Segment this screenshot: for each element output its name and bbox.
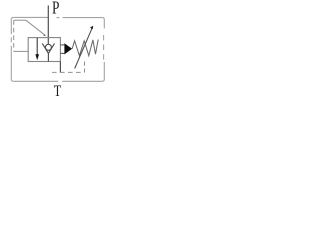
piston link lower [60,52,64,54]
piston link upper [60,44,64,46]
pilot line top horizontal [14,19,26,21]
port P line [47,6,49,45]
svg-text:P: P [52,0,60,18]
spring [72,40,98,56]
check valve ball [45,44,51,50]
pilot piston triangle [64,43,72,54]
drain dashed horizontal [52,71,85,73]
boundary box top edge [11,17,104,19]
tank line from valve box [59,62,61,73]
boundary box left edge [11,19,13,81]
check valve seat V [42,43,54,53]
main valve box [28,38,60,62]
pilot diagonal arrowhead [43,34,46,37]
wire below check valve [47,53,49,61]
boundary box right edge [102,20,104,82]
adjustment arrowhead [90,26,93,30]
boundary box bottom edge [13,80,102,82]
internal flow arrowhead [35,54,39,60]
drain dashed vertical to spring [84,62,86,73]
svg-text:T: T [54,83,62,100]
pilot line vertical left [13,20,15,51]
internal flow arrow stem [36,38,38,56]
pilot diagonal arrow [26,20,44,34]
adjustment arrow shaft [75,29,92,69]
pilot line bottom horizontal into box [14,50,29,52]
